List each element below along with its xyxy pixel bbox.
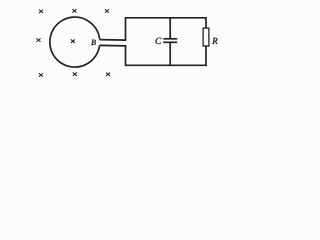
capacitor C lead upper <box>169 18 171 39</box>
flux symbol x7 (bottom-middle) <box>73 72 77 76</box>
flux symbol x1 (top-left) <box>39 10 43 14</box>
wire bottom edge of circuit <box>125 64 207 66</box>
capacitor C top plate <box>163 38 177 40</box>
wire right edge lower segment <box>205 46 207 66</box>
flux symbol x5 (inside loop) <box>71 39 75 43</box>
flux symbol x6 (bottom-left) <box>39 73 43 77</box>
flux symbol x4 (middle-left) <box>37 38 41 42</box>
label R (resistor) <box>212 38 217 44</box>
label C (capacitor) <box>156 38 162 44</box>
capacitor C bottom plate <box>163 41 177 43</box>
wire top edge of circuit <box>125 17 207 19</box>
conducting loop (open at right) <box>50 17 100 67</box>
wire bottom (loop to circuit) <box>100 44 127 47</box>
flux symbol x8 (bottom-right) <box>106 73 110 77</box>
resistor R body <box>203 28 209 46</box>
wire right edge upper segment <box>205 17 207 28</box>
capacitor C lead lower <box>169 42 171 65</box>
flux symbol x3 (top-right) <box>105 9 109 13</box>
label B (magnetic field) <box>91 40 96 45</box>
wire left edge upper segment <box>125 17 127 41</box>
wire left edge lower segment <box>125 45 127 66</box>
wire top (loop to circuit) <box>100 39 127 42</box>
flux symbol x2 (top-middle) <box>72 9 76 13</box>
